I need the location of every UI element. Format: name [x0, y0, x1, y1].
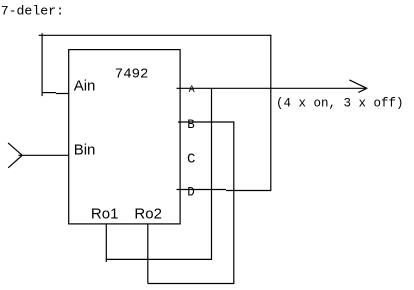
- wire feedback left vertical: [41, 33, 43, 96]
- wire Ain horizontal segment 2: [56, 93, 69, 95]
- wire Ro2 pin vertical: [147, 224, 149, 284]
- wire output A horizontal: [177, 87, 368, 89]
- input source symbol upper barb: [8, 143, 22, 155]
- svg-text:7492: 7492: [115, 66, 149, 82]
- svg-text:Ro2: Ro2: [134, 205, 162, 222]
- svg-text:C: C: [187, 152, 195, 168]
- svg-text:D: D: [187, 186, 195, 200]
- svg-text:Bin: Bin: [74, 141, 96, 158]
- wire Ro2 bottom horizontal: [148, 283, 235, 285]
- arrowhead upper barb: [349, 80, 366, 88]
- IC U1 7492 body: [69, 50, 180, 224]
- arrowhead lower barb: [358, 88, 366, 92]
- wire B-to-Ro2 vertical: [233, 122, 235, 284]
- wire B horizontal: [178, 121, 234, 123]
- svg-text:(4 x on, 3 x off): (4 x on, 3 x off): [276, 97, 404, 111]
- wire feedback right vertical (top to D): [270, 35, 272, 190]
- wire feedback top horizontal (D to Ain): [39, 34, 272, 36]
- svg-text:Ain: Ain: [74, 77, 96, 94]
- wire Ro1 pin vertical: [105, 224, 107, 262]
- wire D horizontal segment 2: [226, 190, 271, 192]
- svg-text:A: A: [189, 85, 195, 96]
- svg-text:Ro1: Ro1: [91, 205, 119, 222]
- wire Ain horizontal segment 1: [42, 92, 57, 94]
- wire Bin input horizontal: [18, 154, 69, 156]
- svg-text:B: B: [187, 118, 195, 132]
- wire Ro1 bottom horizontal: [106, 258, 212, 260]
- wire D horizontal segment 1: [177, 189, 227, 191]
- wire A-to-Ro1 vertical: [211, 88, 213, 260]
- input source symbol lower barb: [8, 156, 22, 168]
- svg-text:7-deler:: 7-deler:: [1, 4, 64, 19]
